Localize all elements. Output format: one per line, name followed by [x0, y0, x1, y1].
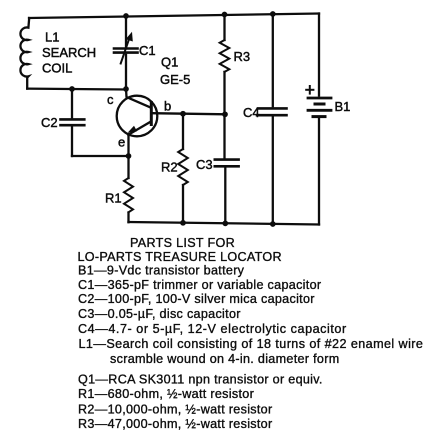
svg-text:B1: B1 — [335, 99, 351, 114]
svg-text:PARTS LIST FOR: PARTS LIST FOR — [130, 236, 235, 250]
svg-text:e: e — [118, 135, 125, 150]
svg-text:R1: R1 — [105, 191, 122, 206]
svg-text:Q1—RCA SK3011 npn transistor o: Q1—RCA SK3011 npn transistor or equiv. — [78, 373, 323, 387]
svg-text:B1—9-Vdc transistor battery: B1—9-Vdc transistor battery — [78, 264, 245, 278]
svg-text:L1—Search coil consisting of 1: L1—Search coil consisting of 18 turns of… — [79, 337, 424, 351]
svg-text:C1: C1 — [139, 43, 156, 58]
svg-text:C2—100-pF, 100-V silver mica c: C2—100-pF, 100-V silver mica capacitor — [78, 292, 315, 306]
svg-text:GE-5: GE-5 — [160, 72, 190, 87]
svg-text:C2: C2 — [41, 115, 58, 130]
svg-text:L1: L1 — [45, 30, 59, 45]
svg-text:R3: R3 — [234, 49, 251, 64]
svg-text:C3—0.05-µF, disc capacitor: C3—0.05-µF, disc capacitor — [78, 307, 241, 321]
svg-text:C3: C3 — [196, 157, 213, 172]
svg-text:Q1: Q1 — [161, 55, 178, 70]
svg-text:LO-PARTS TREASURE LOCATOR: LO-PARTS TREASURE LOCATOR — [78, 250, 282, 264]
svg-text:R1—680-ohm, ½-watt resistor: R1—680-ohm, ½-watt resistor — [78, 387, 254, 401]
svg-text:R2: R2 — [161, 160, 178, 175]
svg-text:c: c — [107, 92, 114, 107]
svg-text:SEARCH: SEARCH — [42, 45, 96, 60]
svg-text:R3—47,000-ohm, ½-watt resistor: R3—47,000-ohm, ½-watt resistor — [78, 417, 272, 431]
svg-text:scramble wound on 4-in. diamet: scramble wound on 4-in. diameter form — [110, 352, 340, 366]
svg-text:R2—10,000-ohm, ½-watt resistor: R2—10,000-ohm, ½-watt resistor — [78, 403, 272, 417]
svg-text:b: b — [164, 99, 171, 114]
svg-text:C4—4.7- or 5-µF, 12-V electrol: C4—4.7- or 5-µF, 12-V electrolytic capac… — [78, 322, 347, 336]
svg-text:C1—365-pF trimmer or variable: C1—365-pF trimmer or variable capacitor — [78, 278, 321, 292]
svg-text:C4: C4 — [243, 105, 260, 120]
svg-text:COIL: COIL — [42, 61, 72, 76]
